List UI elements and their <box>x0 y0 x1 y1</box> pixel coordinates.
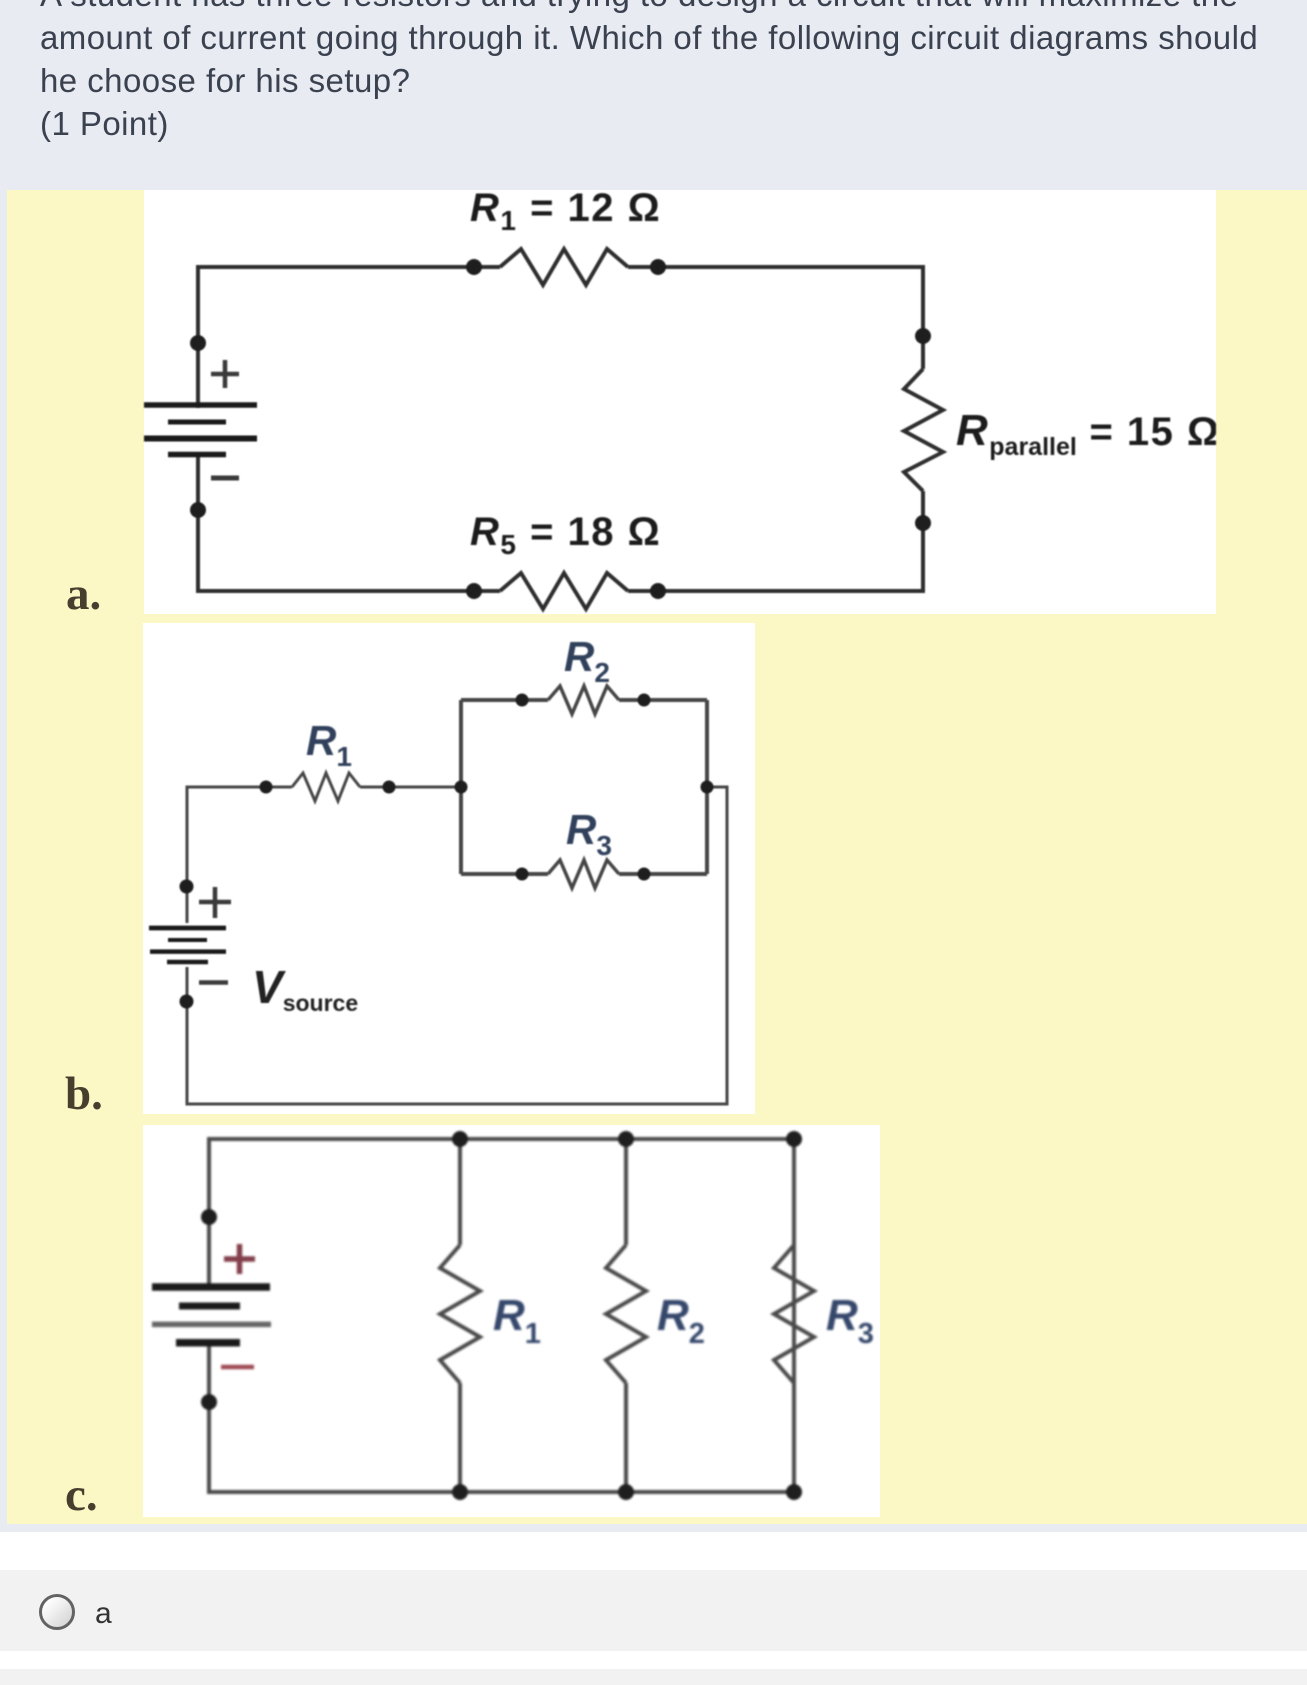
svg-text:Vsource: Vsource <box>252 961 358 1016</box>
svg-text:R3: R3 <box>566 806 612 861</box>
svg-text:R1: R1 <box>493 1291 541 1350</box>
svg-text:R1 = 12 Ω: R1 = 12 Ω <box>470 190 661 236</box>
svg-text:R2: R2 <box>657 1291 705 1350</box>
svg-text:Rparallel = 15 Ω: Rparallel = 15 Ω <box>956 406 1216 461</box>
svg-text:R3: R3 <box>826 1291 874 1350</box>
svg-text:R5 = 18 Ω: R5 = 18 Ω <box>470 510 661 560</box>
svg-text:R1: R1 <box>306 717 352 772</box>
svg-text:R2: R2 <box>564 633 610 688</box>
